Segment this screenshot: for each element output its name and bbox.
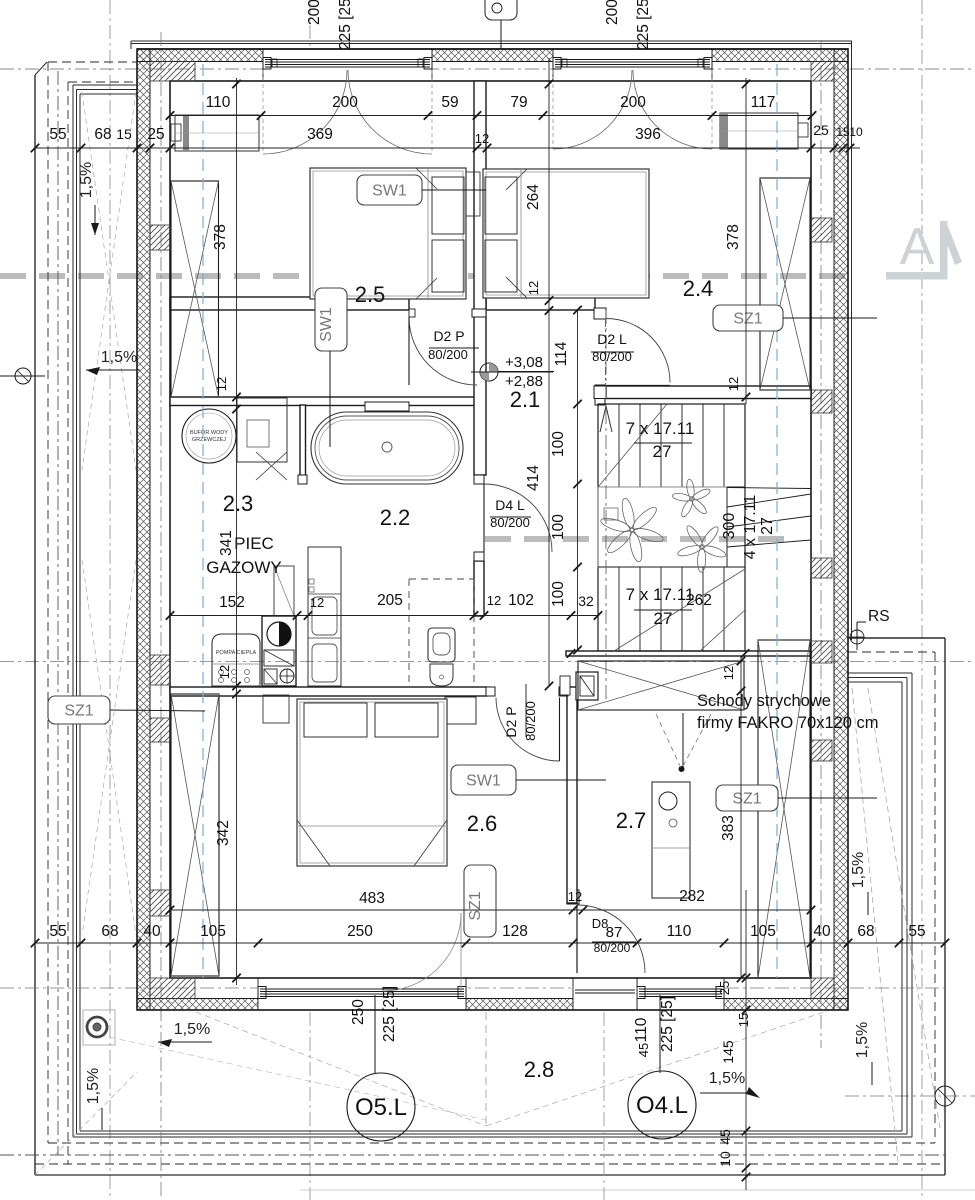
svg-text:414: 414 bbox=[525, 465, 542, 491]
svg-text:110: 110 bbox=[206, 94, 231, 111]
svg-text:25: 25 bbox=[813, 122, 829, 138]
svg-text:1,5%: 1,5% bbox=[78, 162, 95, 198]
svg-text:2.7: 2.7 bbox=[616, 808, 647, 833]
svg-text:+3,08: +3,08 bbox=[505, 354, 543, 371]
svg-text:105: 105 bbox=[750, 923, 776, 940]
svg-text:25: 25 bbox=[147, 126, 164, 143]
svg-text:A: A bbox=[900, 218, 935, 276]
svg-text:55: 55 bbox=[49, 923, 66, 940]
svg-text:1,5%: 1,5% bbox=[854, 1022, 871, 1058]
svg-text:68: 68 bbox=[94, 126, 111, 143]
svg-text:2.5: 2.5 bbox=[355, 282, 386, 307]
svg-text:128: 128 bbox=[502, 923, 528, 940]
svg-text:55: 55 bbox=[908, 923, 925, 940]
svg-text:105: 105 bbox=[200, 923, 226, 940]
svg-text:firmy FAKRO 70x120 cm: firmy FAKRO 70x120 cm bbox=[697, 714, 879, 732]
svg-text:152: 152 bbox=[219, 594, 245, 611]
svg-text:1,5%: 1,5% bbox=[85, 1068, 102, 1104]
svg-text:BUFOR WODY: BUFOR WODY bbox=[190, 430, 228, 436]
svg-text:100: 100 bbox=[550, 431, 567, 457]
svg-text:D4 L: D4 L bbox=[495, 497, 525, 513]
svg-text:GRZEWCZEJ: GRZEWCZEJ bbox=[192, 437, 226, 443]
svg-text:SZ1: SZ1 bbox=[64, 703, 93, 720]
svg-text:SZ1: SZ1 bbox=[732, 791, 761, 808]
svg-text:250: 250 bbox=[350, 999, 367, 1025]
svg-text:D2 P: D2 P bbox=[503, 706, 519, 737]
svg-text:300: 300 bbox=[721, 513, 738, 540]
svg-text:SZ1: SZ1 bbox=[733, 311, 762, 328]
svg-text:200: 200 bbox=[604, 0, 621, 25]
svg-text:59: 59 bbox=[441, 94, 458, 111]
svg-text:GAZOWY: GAZOWY bbox=[206, 558, 282, 577]
svg-text:396: 396 bbox=[635, 126, 661, 143]
svg-text:100: 100 bbox=[550, 514, 567, 540]
svg-text:110: 110 bbox=[633, 1017, 650, 1042]
svg-text:12: 12 bbox=[721, 666, 736, 680]
svg-text:12: 12 bbox=[568, 889, 582, 904]
svg-text:225 [25]: 225 [25] bbox=[337, 0, 354, 50]
svg-text:D2 P: D2 P bbox=[433, 328, 464, 344]
svg-text:SZ1: SZ1 bbox=[467, 891, 484, 920]
svg-text:O5.L: O5.L bbox=[355, 1094, 407, 1121]
svg-text:79: 79 bbox=[510, 94, 527, 111]
svg-text:32: 32 bbox=[578, 593, 594, 609]
svg-text:2.3: 2.3 bbox=[223, 491, 254, 516]
svg-text:250: 250 bbox=[347, 923, 373, 940]
svg-text:200: 200 bbox=[332, 94, 358, 111]
svg-text:10: 10 bbox=[849, 125, 863, 139]
svg-text:7 x 17.11: 7 x 17.11 bbox=[626, 585, 695, 604]
svg-text:15: 15 bbox=[736, 1013, 751, 1027]
svg-text:117: 117 bbox=[751, 94, 776, 111]
svg-text:264: 264 bbox=[525, 184, 542, 210]
svg-text:10: 10 bbox=[717, 1151, 733, 1167]
svg-text:12: 12 bbox=[726, 377, 741, 391]
svg-text:27: 27 bbox=[759, 517, 776, 535]
svg-text:27: 27 bbox=[654, 609, 673, 628]
svg-text:27: 27 bbox=[653, 442, 672, 461]
svg-text:2.4: 2.4 bbox=[683, 276, 714, 301]
svg-text:80/200: 80/200 bbox=[523, 701, 538, 741]
svg-text:40: 40 bbox=[143, 923, 161, 940]
svg-text:SW1: SW1 bbox=[372, 183, 407, 200]
svg-text:378: 378 bbox=[725, 224, 742, 250]
svg-text:1,5%: 1,5% bbox=[101, 349, 137, 366]
svg-text:1,5%: 1,5% bbox=[850, 852, 867, 888]
svg-text:SW1: SW1 bbox=[318, 307, 335, 342]
svg-text:15: 15 bbox=[836, 125, 850, 139]
svg-text:262: 262 bbox=[686, 592, 712, 609]
svg-text:40: 40 bbox=[813, 923, 831, 940]
svg-text:12: 12 bbox=[214, 377, 229, 391]
svg-text:45: 45 bbox=[717, 1129, 733, 1145]
svg-text:2.8: 2.8 bbox=[524, 1057, 555, 1082]
svg-text:110: 110 bbox=[667, 923, 692, 940]
svg-text:114: 114 bbox=[553, 341, 570, 366]
svg-text:2.1: 2.1 bbox=[510, 387, 541, 412]
svg-text:4 x 17.11: 4 x 17.11 bbox=[742, 495, 759, 560]
svg-text:D2 L: D2 L bbox=[597, 331, 627, 347]
svg-text:369: 369 bbox=[307, 126, 333, 143]
svg-text:2.2: 2.2 bbox=[380, 505, 411, 530]
svg-text:7 x 17.11: 7 x 17.11 bbox=[626, 419, 695, 438]
svg-text:12: 12 bbox=[217, 665, 232, 679]
svg-text:87: 87 bbox=[606, 924, 623, 941]
svg-text:55: 55 bbox=[49, 126, 66, 143]
svg-text:341: 341 bbox=[218, 530, 235, 556]
svg-text:1,5%: 1,5% bbox=[174, 1021, 210, 1038]
svg-text:378: 378 bbox=[212, 224, 229, 250]
svg-text:12: 12 bbox=[310, 595, 324, 610]
svg-text:12: 12 bbox=[475, 131, 489, 146]
svg-text:68: 68 bbox=[101, 923, 118, 940]
svg-text:200: 200 bbox=[620, 94, 646, 111]
svg-text:80/200: 80/200 bbox=[592, 349, 632, 364]
svg-text:483: 483 bbox=[359, 890, 385, 907]
svg-text:1,5%: 1,5% bbox=[709, 1070, 745, 1087]
svg-text:383: 383 bbox=[720, 815, 737, 841]
svg-text:225 [25]: 225 [25] bbox=[635, 0, 652, 50]
svg-text:PIEC: PIEC bbox=[234, 534, 274, 553]
svg-text:145: 145 bbox=[720, 1040, 736, 1064]
svg-text:205: 205 bbox=[377, 592, 403, 609]
svg-text:15: 15 bbox=[116, 126, 132, 142]
svg-text:O4.L: O4.L bbox=[636, 1092, 688, 1119]
svg-text:+2,88: +2,88 bbox=[505, 373, 543, 390]
svg-text:282: 282 bbox=[679, 888, 705, 905]
svg-text:25: 25 bbox=[717, 981, 732, 995]
svg-text:45: 45 bbox=[636, 1043, 651, 1057]
svg-text:Schody strychowe: Schody strychowe bbox=[697, 692, 831, 710]
svg-text:12: 12 bbox=[487, 593, 501, 608]
svg-text:200: 200 bbox=[306, 0, 323, 25]
svg-text:102: 102 bbox=[508, 592, 534, 609]
svg-text:SW1: SW1 bbox=[466, 773, 501, 790]
svg-text:68: 68 bbox=[857, 923, 874, 940]
svg-text:225 [25]: 225 [25] bbox=[659, 996, 676, 1052]
svg-text:12: 12 bbox=[526, 281, 541, 295]
svg-text:2.6: 2.6 bbox=[467, 811, 498, 836]
svg-text:100: 100 bbox=[550, 581, 567, 607]
svg-text:RS: RS bbox=[868, 608, 890, 625]
svg-text:225 [25]: 225 [25] bbox=[381, 986, 398, 1042]
svg-text:80/200: 80/200 bbox=[428, 347, 468, 362]
svg-text:342: 342 bbox=[215, 820, 232, 846]
